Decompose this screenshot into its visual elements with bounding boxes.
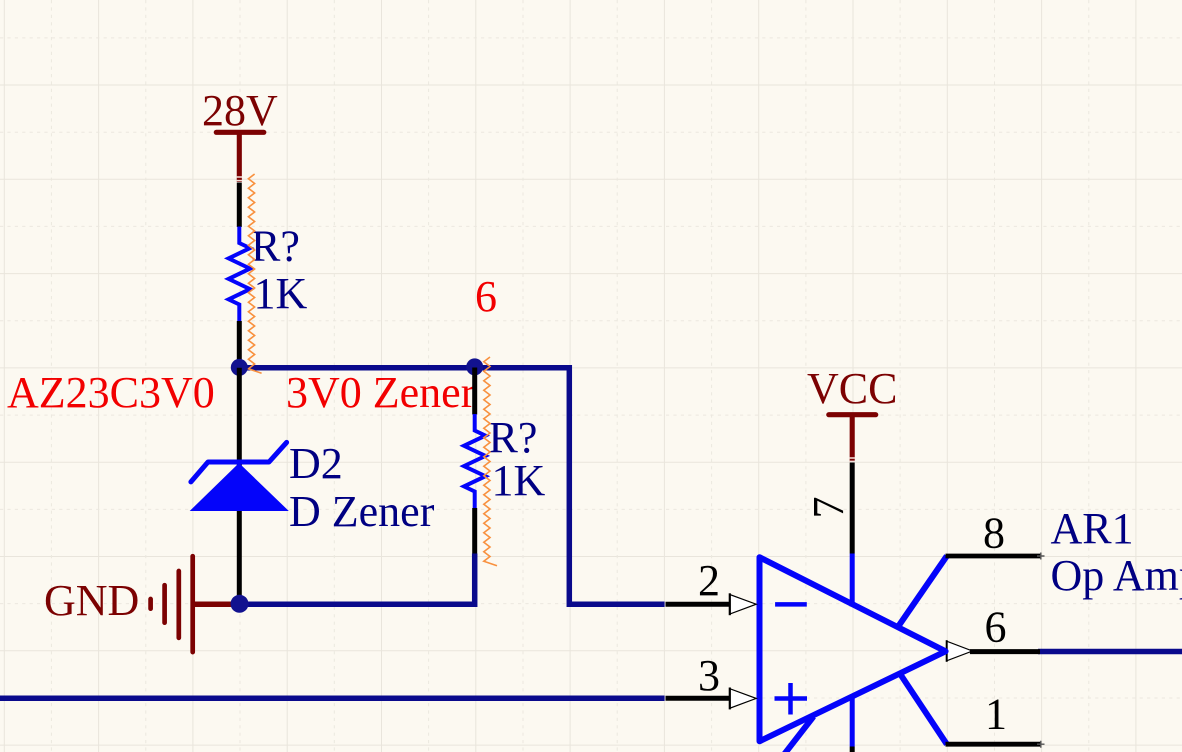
node junction 2 xyxy=(466,358,483,375)
op-amp pin 8 stub xyxy=(898,556,947,628)
wire R1 top pin xyxy=(237,183,242,228)
op-amp pin 1 wire xyxy=(946,742,1041,747)
svg-text:1: 1 xyxy=(985,690,1007,739)
svg-text:7: 7 xyxy=(804,497,853,519)
wire R2 top pin xyxy=(472,368,477,415)
wire pin3 net (bottom horizontal) xyxy=(0,696,665,702)
ground stub wire xyxy=(194,601,237,607)
pin 6 output arrow xyxy=(947,641,973,661)
pin 2 input arrow xyxy=(730,595,756,615)
op-amp pin 7 inner segment xyxy=(850,554,855,607)
op-amp plus sign xyxy=(775,683,808,715)
pin 3 input arrow xyxy=(730,689,756,709)
diode D2 cathode bar with bent zener tips xyxy=(191,442,287,482)
op-amp minus sign xyxy=(775,602,807,607)
op-amp pin 5 stub xyxy=(784,717,814,752)
op-amp pin 4 wire xyxy=(850,698,855,747)
diode D2 anode triangle xyxy=(190,463,289,511)
svg-text:3V0 Zener: 3V0 Zener xyxy=(286,368,476,417)
op-amp pin 4 wire outer xyxy=(850,747,855,752)
power symbol 28V bar xyxy=(216,130,263,135)
op-amp pin 8 wire xyxy=(946,554,1041,559)
power symbol VCC stem xyxy=(850,417,855,462)
wire op-amp output net xyxy=(1038,649,1182,655)
pin hotspot marker R1 top xyxy=(237,177,242,181)
pin 1 end tick xyxy=(1037,741,1045,748)
wire R1 bottom pin xyxy=(237,321,242,368)
op-amp pin 7 wire xyxy=(850,463,855,554)
op-amp pin 1 stub xyxy=(900,673,947,744)
wire GND net: junction3 to R2 bottom xyxy=(239,554,474,605)
svg-text:1K: 1K xyxy=(492,456,546,505)
op-amp U1 triangle xyxy=(760,557,946,741)
svg-text:1K: 1K xyxy=(254,269,308,318)
resistor R2 body xyxy=(464,414,485,508)
svg-text:AZ23C3V0: AZ23C3V0 xyxy=(7,368,215,417)
svg-text:28V: 28V xyxy=(202,86,278,135)
node junction 1 xyxy=(231,359,248,376)
pin 2/3 wire-end gaps xyxy=(664,601,666,702)
op-amp pin 2 wire xyxy=(666,602,732,607)
compile squiggle along R1 xyxy=(248,174,261,373)
svg-text:2: 2 xyxy=(698,556,720,605)
svg-text:AR1: AR1 xyxy=(1051,504,1134,553)
power symbol VCC bar xyxy=(829,412,876,417)
svg-text:6: 6 xyxy=(985,603,1007,652)
svg-text:6: 6 xyxy=(475,272,497,321)
op-amp pin 6 wire xyxy=(970,649,1040,654)
svg-text:GND: GND xyxy=(44,576,139,625)
ground symbol bars xyxy=(151,556,193,652)
svg-text:8: 8 xyxy=(983,509,1005,558)
svg-text:R?: R? xyxy=(489,413,538,462)
pin 8 end tick xyxy=(1037,553,1045,560)
wire net 6: junction1 to corner to op-amp pin2 xyxy=(239,368,665,604)
svg-text:VCC: VCC xyxy=(807,364,897,413)
svg-text:D Zener: D Zener xyxy=(289,487,435,536)
power symbol 28V stem xyxy=(237,134,242,182)
svg-text:Op Amp: Op Amp xyxy=(1051,551,1182,600)
svg-text:R?: R? xyxy=(251,222,300,271)
svg-text:D2: D2 xyxy=(289,439,343,488)
pin hotspot marker VCC xyxy=(850,458,855,461)
wire zener branch (junction1 to junction3) xyxy=(237,368,242,604)
op-amp pin 3 wire xyxy=(666,696,732,701)
node junction 3 (ground) xyxy=(231,595,249,613)
wire R2 bottom pin xyxy=(472,508,477,554)
compile squiggle along R2 xyxy=(484,357,497,566)
resistor R1 body xyxy=(229,227,250,322)
svg-text:3: 3 xyxy=(698,651,720,700)
